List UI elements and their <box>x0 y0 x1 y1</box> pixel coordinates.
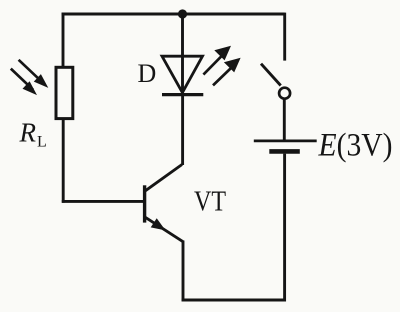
wire base horizontal <box>62 200 143 203</box>
wire LED cathode to collector <box>181 93 184 165</box>
wire left vertical lower <box>62 120 65 203</box>
svg-text:D: D <box>138 59 157 88</box>
LED D triangle <box>162 56 203 92</box>
svg-text:VT: VT <box>194 186 226 217</box>
battery E positive plate <box>254 140 317 143</box>
wire left vertical upper <box>62 13 65 67</box>
svg-text:R: R <box>19 118 37 148</box>
transistor VT base bar <box>143 185 146 222</box>
light arrow 2 onto RL <box>11 69 37 96</box>
transistor VT collector diagonal <box>145 165 182 191</box>
wire battery to bottom <box>283 154 286 302</box>
LED D cathode bar <box>162 93 203 96</box>
node junction dot <box>178 9 187 18</box>
wire emitter vertical <box>182 241 185 302</box>
light arrow 1 onto RL <box>19 60 49 88</box>
svg-text:E(3V): E(3V) <box>318 128 393 164</box>
wire top horizontal <box>62 13 285 16</box>
wire LED anode <box>181 14 184 94</box>
wire bottom horizontal <box>182 299 286 302</box>
battery E negative plate <box>269 149 300 154</box>
transistor VT emitter arrowhead <box>151 218 166 230</box>
svg-text:L: L <box>37 134 47 151</box>
wire right vertical top <box>283 13 286 61</box>
photoresistor RL body <box>56 67 73 118</box>
transistor VT emitter diagonal <box>145 217 183 242</box>
wire switch to battery <box>283 99 286 140</box>
LED emission arrow 1 <box>203 46 231 75</box>
switch S pivot circle <box>279 88 290 99</box>
switch S blade <box>261 64 281 86</box>
LED emission arrow 2 <box>213 58 241 86</box>
